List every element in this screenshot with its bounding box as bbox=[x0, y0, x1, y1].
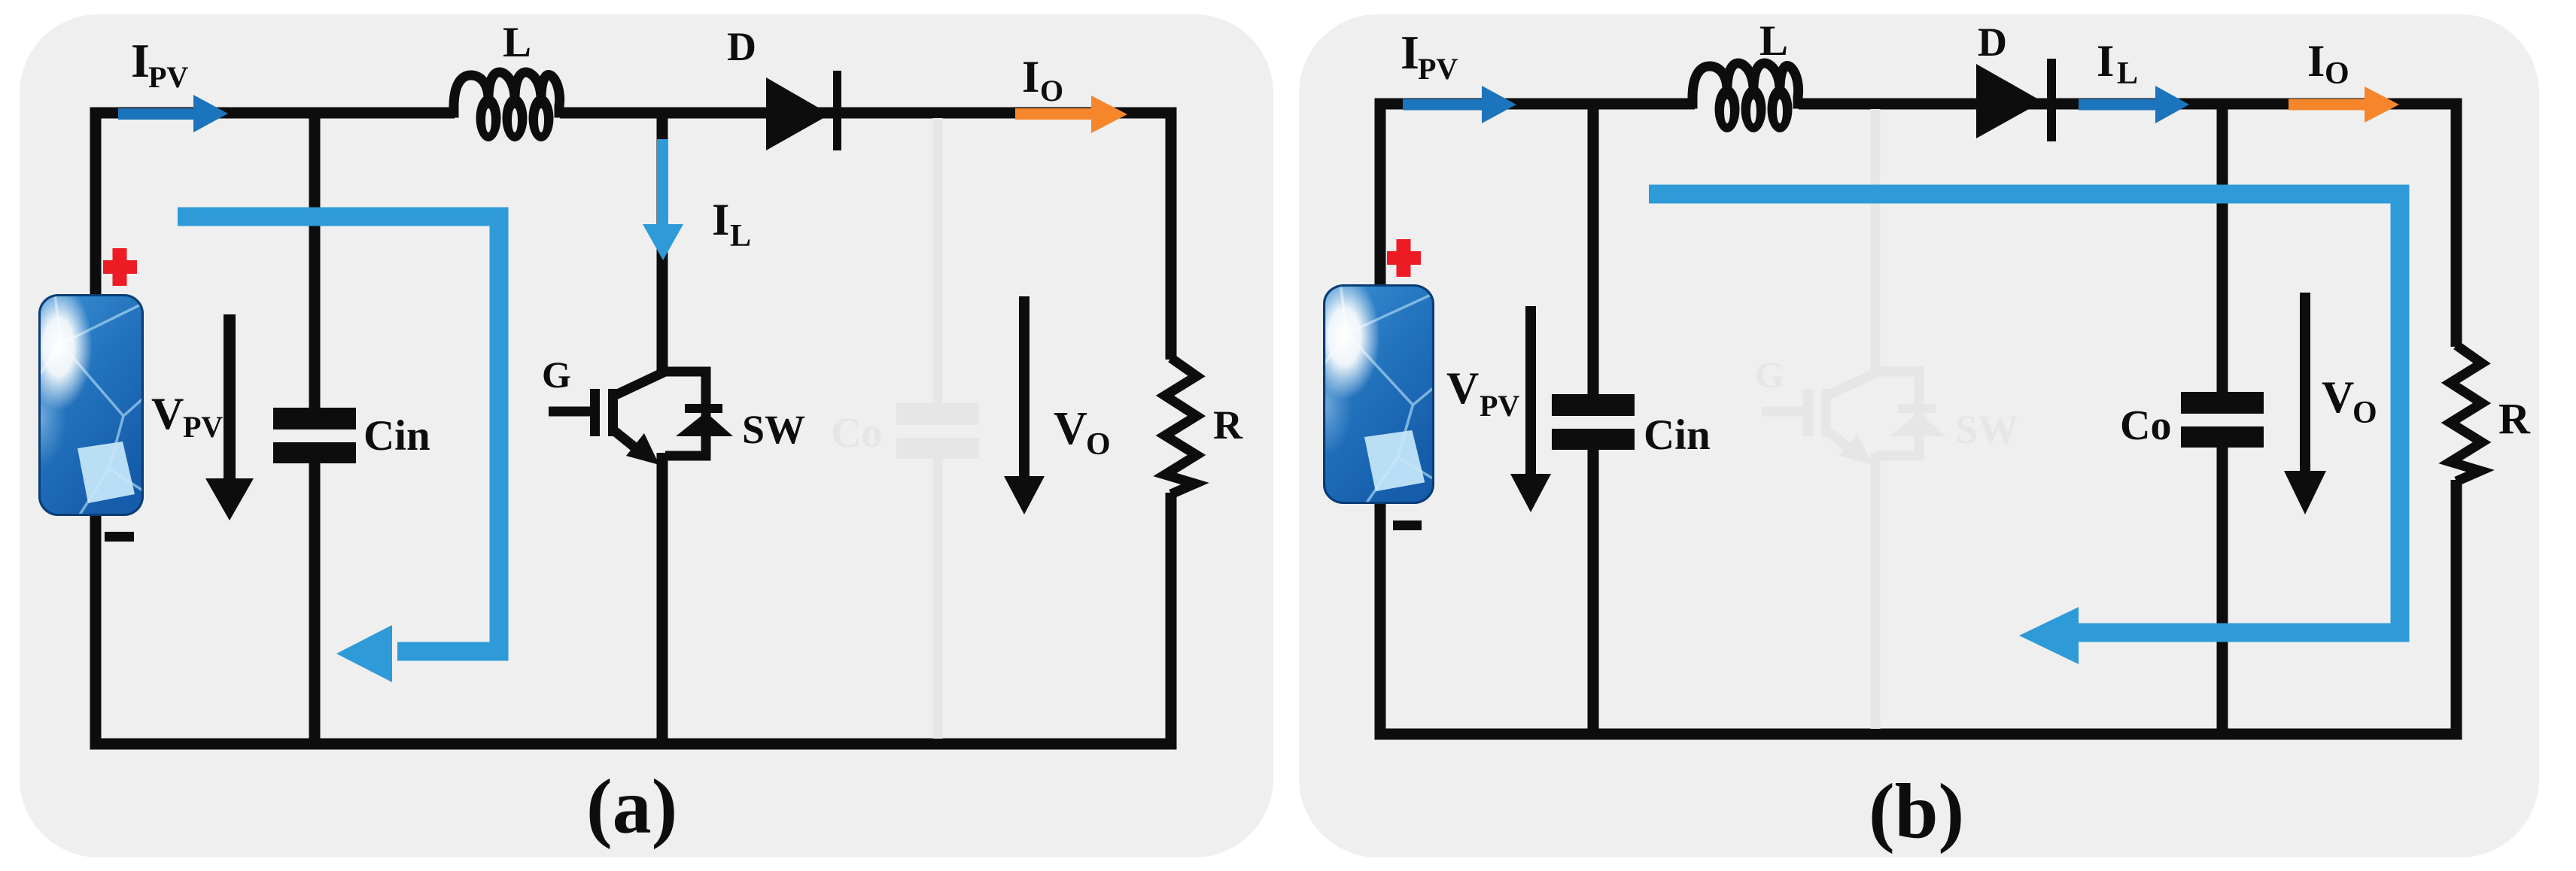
svg-text:V: V bbox=[1054, 403, 1087, 454]
svg-text:PV: PV bbox=[1418, 52, 1458, 86]
svg-text:L: L bbox=[503, 19, 531, 66]
svg-text:O: O bbox=[1086, 427, 1111, 462]
svg-text:L: L bbox=[730, 219, 751, 253]
svg-text:I: I bbox=[1401, 26, 1419, 79]
svg-text:PV: PV bbox=[1480, 389, 1519, 423]
svg-text:(a): (a) bbox=[586, 763, 677, 850]
svg-text:O: O bbox=[2352, 396, 2377, 430]
svg-text:D: D bbox=[1978, 20, 2007, 65]
svg-text:V: V bbox=[151, 389, 184, 439]
svg-text:Co: Co bbox=[2120, 402, 2171, 449]
svg-text:Cin: Cin bbox=[1644, 411, 1711, 459]
svg-text:R: R bbox=[1213, 402, 1243, 448]
svg-text:(b): (b) bbox=[1869, 768, 1964, 854]
svg-text:I: I bbox=[1022, 52, 1039, 102]
svg-text:I: I bbox=[2307, 36, 2325, 86]
svg-text:PV: PV bbox=[148, 60, 188, 94]
svg-text:L: L bbox=[2117, 56, 2138, 91]
svg-text:PV: PV bbox=[183, 410, 223, 444]
svg-text:O: O bbox=[2325, 56, 2349, 91]
svg-text:R: R bbox=[2498, 394, 2531, 443]
svg-text:I: I bbox=[712, 195, 729, 244]
svg-text:D: D bbox=[727, 24, 756, 69]
svg-text:L: L bbox=[1759, 17, 1788, 65]
svg-text:I: I bbox=[131, 34, 150, 87]
svg-text:I: I bbox=[2097, 36, 2114, 86]
svg-text:V: V bbox=[1446, 363, 1479, 413]
svg-text:Co: Co bbox=[831, 410, 882, 457]
svg-text:O: O bbox=[1040, 74, 1063, 108]
svg-text:Cin: Cin bbox=[363, 412, 430, 460]
svg-text:V: V bbox=[2322, 372, 2354, 422]
